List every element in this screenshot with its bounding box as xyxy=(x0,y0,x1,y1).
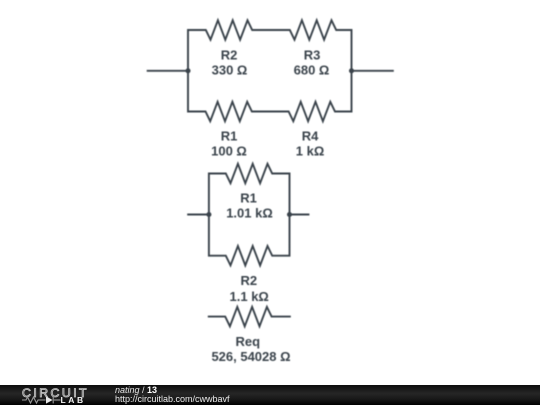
svg-text:680 Ω: 680 Ω xyxy=(294,62,330,77)
svg-text:1.01 kΩ: 1.01 kΩ xyxy=(226,206,273,221)
svg-text:526, 54028 Ω: 526, 54028 Ω xyxy=(211,349,290,364)
svg-text:R3: R3 xyxy=(304,48,321,63)
svg-text:R1: R1 xyxy=(221,129,238,144)
svg-text:R4: R4 xyxy=(302,129,319,144)
svg-text:1 kΩ: 1 kΩ xyxy=(296,143,325,158)
svg-text:R2: R2 xyxy=(221,48,238,63)
svg-text:330 Ω: 330 Ω xyxy=(212,62,248,77)
svg-text:100 Ω: 100 Ω xyxy=(211,143,247,158)
svg-text:1.1 kΩ: 1.1 kΩ xyxy=(230,289,269,304)
svg-text:R1: R1 xyxy=(240,191,257,206)
svg-text:R2: R2 xyxy=(240,273,257,288)
svg-text:Req: Req xyxy=(236,334,261,349)
